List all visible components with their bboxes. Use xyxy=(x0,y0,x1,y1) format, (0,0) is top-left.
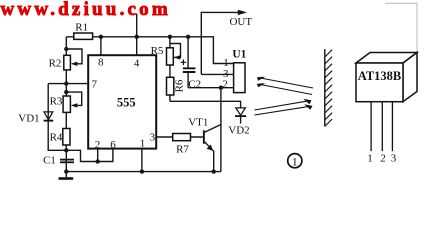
svg-text:8: 8 xyxy=(98,57,104,69)
svg-text:1: 1 xyxy=(367,153,373,165)
svg-text:C2: C2 xyxy=(188,79,201,91)
svg-text:VT1: VT1 xyxy=(188,116,208,128)
svg-text:OUT: OUT xyxy=(229,16,252,28)
svg-text:R3: R3 xyxy=(50,95,63,107)
svg-text:1: 1 xyxy=(292,154,298,168)
svg-text:R6: R6 xyxy=(174,79,186,92)
svg-text:3: 3 xyxy=(150,132,156,144)
svg-text:555: 555 xyxy=(117,95,136,109)
svg-text:R1: R1 xyxy=(75,22,88,34)
svg-text:3: 3 xyxy=(391,153,397,165)
svg-text:VD2: VD2 xyxy=(228,125,249,137)
svg-text:U1: U1 xyxy=(232,48,246,60)
svg-text:7: 7 xyxy=(91,79,97,91)
svg-text:2: 2 xyxy=(380,153,386,165)
svg-text:4: 4 xyxy=(134,58,140,70)
svg-text:AT138B: AT138B xyxy=(358,69,402,83)
svg-text:R7: R7 xyxy=(176,144,189,156)
svg-text:VD1: VD1 xyxy=(18,113,39,125)
svg-text:www.dziuu.com: www.dziuu.com xyxy=(1,0,171,20)
svg-text:R4: R4 xyxy=(50,131,63,143)
svg-text:1: 1 xyxy=(140,137,146,149)
svg-text:6: 6 xyxy=(110,139,116,151)
svg-text:R2: R2 xyxy=(49,57,62,69)
svg-text:2: 2 xyxy=(222,78,228,90)
svg-text:2: 2 xyxy=(95,139,101,151)
svg-text:C1: C1 xyxy=(43,154,56,166)
svg-text:R5: R5 xyxy=(151,45,164,57)
